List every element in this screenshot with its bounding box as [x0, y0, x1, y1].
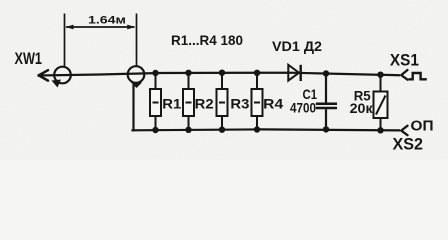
node dot R4 top: [254, 70, 260, 76]
svg-text:4700: 4700: [290, 100, 316, 116]
resistor R1: [150, 73, 161, 130]
loop W1 arrowhead: [52, 80, 62, 88]
dimension extension line left: [64, 14, 66, 67]
socket XS2: [401, 126, 407, 136]
dimension arrowhead left: [66, 25, 74, 30]
variable resistor R5: [374, 75, 388, 131]
resistor R3: [217, 73, 228, 130]
node dot R2 top: [185, 70, 191, 76]
wire: bottom common wire from loop leg to XS2 socket: [133, 129, 400, 130]
pulse signal symbol: [409, 73, 427, 79]
svg-text:R1: R1: [162, 96, 181, 112]
resistor R4: [252, 73, 263, 130]
svg-text:ОП: ОП: [411, 118, 434, 134]
svg-text:R3: R3: [230, 96, 249, 112]
svg-text:R2: R2: [195, 96, 214, 112]
svg-text:VD1 Д2: VD1 Д2: [272, 39, 322, 54]
dimension line 1.64m: [66, 26, 135, 28]
node dot R1 bottom: [152, 127, 158, 133]
diode VD1: [288, 65, 299, 81]
svg-text:R4: R4: [263, 96, 283, 112]
node dot R5 top: [377, 72, 383, 78]
node dot R5 bottom: [377, 127, 383, 133]
svg-text:R1...R4 180: R1...R4 180: [171, 32, 243, 48]
resistor R2: [183, 73, 194, 130]
svg-text:XS2: XS2: [393, 136, 424, 154]
measuring loop W2 (right circle): [128, 66, 145, 83]
node dot R2 bottom: [185, 127, 191, 133]
node dot C1 top: [323, 70, 329, 76]
dimension arrowhead right: [127, 25, 135, 30]
node dot R1 top: [152, 70, 158, 76]
diode VD1 cathode bar: [300, 65, 302, 81]
svg-text:1.64м: 1.64м: [88, 15, 126, 27]
svg-text:XW1: XW1: [15, 50, 43, 68]
antenna arrow XW1: [39, 70, 48, 80]
node dot R3 top: [219, 70, 225, 76]
svg-text:XS1: XS1: [390, 52, 419, 70]
node dot R3 bottom: [219, 127, 225, 133]
loop W2 arrowhead: [131, 83, 142, 89]
wire: vertical leg from loop W2 down to bottom wire: [132, 84, 134, 131]
node dot C1 bottom: [323, 126, 329, 132]
dimension extension line right: [136, 14, 138, 67]
socket XS1: [401, 70, 407, 80]
svg-text:20к: 20к: [350, 100, 374, 116]
wire: main top wire from XW1 arrow to XS1 socket: [39, 73, 400, 76]
node dot R4 bottom: [254, 126, 260, 132]
capacitor C1: [316, 74, 337, 130]
measuring loop W1 (left circle): [54, 67, 71, 84]
